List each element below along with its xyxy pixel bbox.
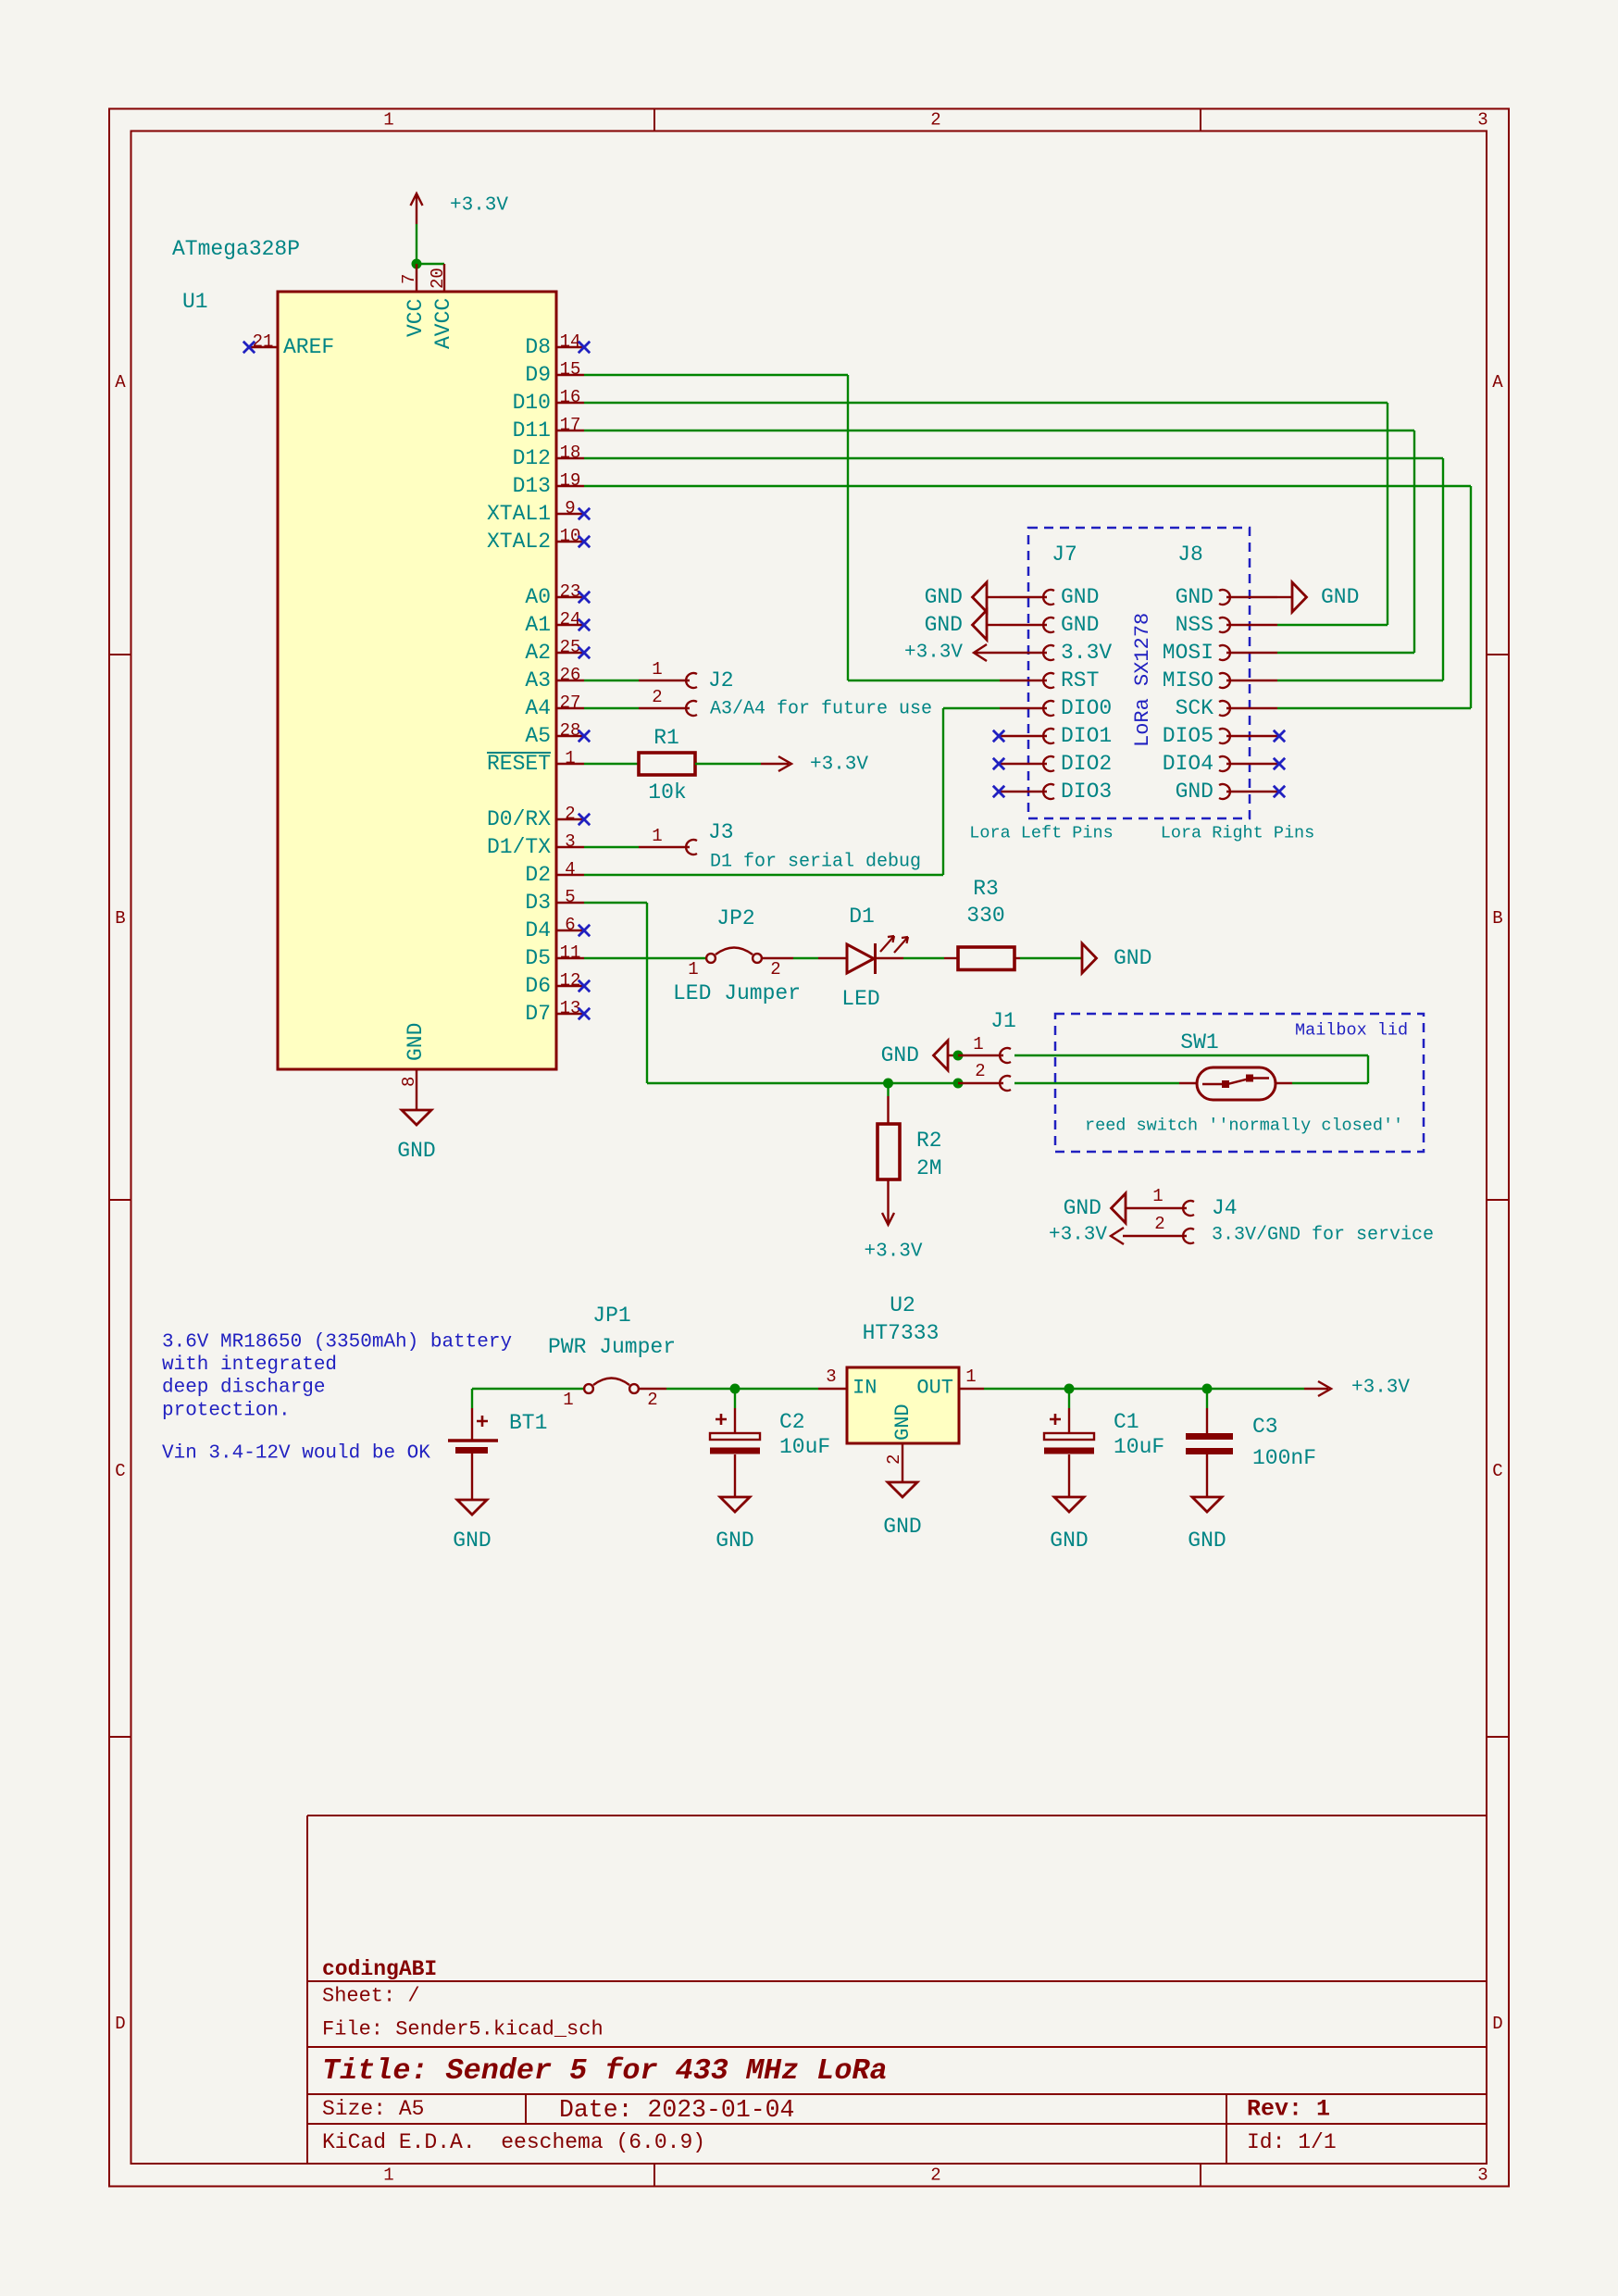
- connector J4 pin 2: [1123, 1235, 1187, 1237]
- ground below C3: [1192, 1497, 1222, 1512]
- ground at J7 GND pin row1: [973, 582, 988, 612]
- junction J1 pin2: [953, 1079, 964, 1089]
- jumper JP1 PWR Jumper: [584, 1384, 593, 1393]
- svg-text:RESET: RESET: [487, 752, 551, 776]
- power +3.3V right of R1: [761, 763, 789, 765]
- svg-text:MOSI: MOSI: [1163, 641, 1213, 665]
- pin 25 A2: [556, 652, 584, 654]
- svg-text:OUT: OUT: [916, 1377, 953, 1400]
- svg-text:18: 18: [560, 443, 581, 463]
- junction C3: [1202, 1384, 1213, 1394]
- svg-text:GND: GND: [397, 1139, 435, 1163]
- svg-text:3.6V MR18650 (3350mAh) battery: 3.6V MR18650 (3350mAh) battery: [162, 1332, 512, 1354]
- svg-text:deep discharge: deep discharge: [162, 1378, 325, 1399]
- no-connect J8: [1274, 786, 1285, 797]
- svg-text:1: 1: [565, 748, 575, 768]
- svg-text:SW1: SW1: [1180, 1030, 1218, 1054]
- ground below C1: [1054, 1497, 1084, 1512]
- svg-text:J8: J8: [1177, 543, 1203, 567]
- svg-text:U2: U2: [890, 1293, 915, 1317]
- pin 2 D0/RX: [556, 818, 584, 820]
- svg-text:D1/TX: D1/TX: [487, 835, 551, 859]
- no-connect J7: [993, 758, 1004, 769]
- svg-text:J3: J3: [708, 820, 734, 844]
- svg-text:JP1: JP1: [592, 1304, 630, 1328]
- no-connect A0: [579, 592, 590, 603]
- connector J7 pin DIO1: [1000, 735, 1047, 737]
- pin 10 XTAL2: [556, 541, 584, 543]
- connector J8 pin GND: [1219, 590, 1230, 605]
- no-connect AREF: [243, 342, 255, 353]
- connector J8 pin DIO5: [1219, 729, 1230, 743]
- pin 2 GND: [902, 1443, 903, 1482]
- svg-text:DIO2: DIO2: [1061, 752, 1112, 776]
- ground right of R3: [1082, 943, 1097, 973]
- svg-text:D12: D12: [513, 446, 551, 470]
- svg-text:+3.3V: +3.3V: [810, 755, 868, 776]
- svg-text:GND: GND: [716, 1529, 753, 1553]
- junction J1 pin1: [953, 1051, 964, 1061]
- pin 28 A5: [556, 735, 584, 737]
- jumper JP2 LED Jumper: [584, 957, 706, 959]
- no-connect XTAL1: [579, 508, 590, 519]
- svg-text:R1: R1: [653, 726, 679, 750]
- svg-text:21: 21: [253, 331, 274, 352]
- svg-text:DIO4: DIO4: [1163, 752, 1213, 776]
- svg-text:+3.3V: +3.3V: [1049, 1225, 1107, 1246]
- svg-text:C: C: [1492, 1461, 1502, 1481]
- connector J8 pin SCK: [1219, 701, 1230, 716]
- svg-text:D6: D6: [525, 974, 551, 998]
- ground symbol below U1: [402, 1110, 431, 1125]
- svg-text:D: D: [1492, 2014, 1502, 2034]
- svg-text:KiCad E.D.A. eeschema (6.0.9): KiCad E.D.A. eeschema (6.0.9): [322, 2130, 705, 2154]
- wire D12 to MISO: [584, 457, 1443, 459]
- ground below BT1: [457, 1500, 487, 1515]
- junction VCC node: [412, 259, 422, 269]
- svg-text:Vin 3.4-12V would be OK: Vin 3.4-12V would be OK: [162, 1443, 430, 1465]
- connector J8 pin MISO: [1219, 673, 1230, 688]
- svg-text:DIO1: DIO1: [1061, 724, 1112, 748]
- power +3.3V at U1 top: [416, 195, 417, 224]
- svg-text:D9: D9: [525, 363, 551, 387]
- svg-text:3: 3: [1477, 2165, 1487, 2186]
- svg-text:PWR Jumper: PWR Jumper: [548, 1335, 676, 1359]
- svg-text:JP2: JP2: [716, 906, 754, 930]
- wire D1 to R3: [903, 957, 944, 959]
- ground at J8 GND pin: [1277, 596, 1292, 598]
- no-connect J8: [1274, 730, 1285, 742]
- pin 5 D3: [556, 902, 584, 904]
- pin 3 D1/TX: [556, 846, 584, 848]
- svg-text:B: B: [1492, 908, 1502, 929]
- svg-text:GND: GND: [1061, 613, 1099, 637]
- svg-text:14: 14: [560, 331, 581, 352]
- svg-text:D10: D10: [513, 391, 551, 415]
- connector J8 pin GND: [1219, 784, 1230, 799]
- pin 9 XTAL1: [556, 513, 584, 515]
- svg-text:15: 15: [560, 359, 581, 380]
- svg-text:3: 3: [826, 1366, 836, 1387]
- no-connect XTAL2: [579, 536, 590, 547]
- svg-text:+3.3V: +3.3V: [1351, 1378, 1410, 1399]
- junction R2 branch: [883, 1079, 893, 1089]
- pin 24 A1: [556, 624, 584, 626]
- connector J7 pin DIO2: [1000, 763, 1047, 765]
- svg-text:25: 25: [560, 637, 581, 657]
- svg-text:Lora Left Pins: Lora Left Pins: [969, 824, 1113, 843]
- wire D13 to SCK: [584, 485, 1471, 487]
- svg-text:1: 1: [1152, 1186, 1163, 1206]
- pin 13 D7: [556, 1013, 584, 1015]
- svg-text:A0: A0: [525, 585, 551, 609]
- microcontroller U1 ATmega328P body: [278, 292, 556, 1069]
- svg-text:10: 10: [560, 526, 581, 546]
- svg-text:GND: GND: [1176, 780, 1213, 804]
- junction C2: [730, 1384, 741, 1394]
- svg-text:10uF: 10uF: [779, 1435, 830, 1459]
- svg-text:D0/RX: D0/RX: [487, 807, 551, 831]
- svg-text:XTAL2: XTAL2: [487, 530, 551, 554]
- connector J8 pin NSS: [1219, 618, 1230, 632]
- svg-text:DIO0: DIO0: [1061, 696, 1112, 720]
- pin 26 A3: [556, 680, 584, 681]
- pin 6 D4: [556, 930, 584, 931]
- pin 3 IN: [818, 1388, 847, 1390]
- svg-text:D8: D8: [525, 335, 551, 359]
- svg-text:2: 2: [770, 959, 780, 980]
- svg-text:C2: C2: [779, 1410, 805, 1434]
- pin 20 AVCC: [443, 264, 445, 292]
- svg-text:Size: A5: Size: A5: [322, 2097, 424, 2121]
- wire R3 to GND: [1020, 957, 1082, 959]
- svg-text:A3: A3: [525, 668, 551, 693]
- svg-text:13: 13: [560, 998, 581, 1018]
- svg-text:8: 8: [399, 1077, 419, 1087]
- wire D10 to NSS: [584, 402, 1388, 404]
- ground at J7 GND pin row2: [973, 610, 988, 640]
- no-connect A2: [579, 647, 590, 658]
- svg-text:ATmega328P: ATmega328P: [172, 237, 300, 261]
- svg-text:GND: GND: [1064, 1196, 1101, 1220]
- svg-text:A2: A2: [525, 641, 551, 665]
- svg-text:D1: D1: [849, 905, 875, 929]
- ground at J1 pin1: [934, 1041, 949, 1070]
- svg-text:A: A: [115, 372, 126, 393]
- svg-text:3: 3: [1477, 110, 1487, 131]
- sheet border frame: [109, 109, 1509, 2187]
- pin 15 D9: [556, 374, 584, 376]
- svg-text:4: 4: [565, 859, 575, 880]
- pin 21 AREF: [249, 346, 278, 348]
- svg-text:LoRa SX1278: LoRa SX1278: [1131, 613, 1154, 747]
- svg-text:File: Sender5.kicad_sch: File: Sender5.kicad_sch: [322, 2018, 604, 2041]
- svg-text:codingABI: codingABI: [322, 1957, 437, 1981]
- svg-text:protection.: protection.: [162, 1400, 291, 1421]
- svg-text:GND: GND: [891, 1404, 915, 1441]
- connector J7 pin RST: [1000, 680, 1047, 681]
- svg-text:2: 2: [565, 804, 575, 824]
- svg-text:+3.3V: +3.3V: [864, 1242, 922, 1263]
- capacitor C3 100nF: [1206, 1389, 1208, 1408]
- svg-text:XTAL1: XTAL1: [487, 502, 551, 526]
- svg-text:GND: GND: [1321, 585, 1359, 609]
- power +3.3V at J4 pin2: [1111, 1228, 1124, 1244]
- svg-text:2: 2: [930, 2165, 940, 2186]
- dashed box Mailbox lid: [1055, 1014, 1424, 1152]
- svg-text:100nF: 100nF: [1252, 1446, 1316, 1470]
- svg-text:DIO3: DIO3: [1061, 780, 1112, 804]
- connector J7 pin GND: [1000, 596, 1047, 598]
- connector J8 pin MOSI: [1219, 645, 1230, 660]
- svg-text:D7: D7: [525, 1002, 551, 1026]
- wire +3.3V to VCC/AVCC: [416, 224, 417, 264]
- svg-text:BT1: BT1: [509, 1411, 547, 1435]
- svg-text:10uF: 10uF: [1114, 1435, 1164, 1459]
- svg-text:Title: Sender 5 for 433 MHz Lo: Title: Sender 5 for 433 MHz LoRa: [322, 2054, 888, 2088]
- svg-text:GND: GND: [881, 1043, 919, 1067]
- svg-text:GND: GND: [453, 1529, 491, 1553]
- pin 27 A4: [556, 707, 584, 709]
- wire D9 to RST: [584, 374, 848, 376]
- svg-text:9: 9: [565, 498, 575, 518]
- reed switch SW1: [1179, 1082, 1197, 1084]
- svg-text:LED Jumper: LED Jumper: [673, 981, 801, 1005]
- connector J3 pin 1 (D1/TX): [584, 846, 639, 848]
- svg-text:6: 6: [565, 915, 575, 935]
- no-connect J8: [1274, 758, 1285, 769]
- connector J7 pin DIO3: [1000, 791, 1047, 792]
- pin 19 D13: [556, 485, 584, 487]
- svg-text:2M: 2M: [916, 1156, 942, 1180]
- no-connect D8: [579, 342, 590, 353]
- pin 14 D8: [556, 346, 584, 348]
- svg-text:HT7333: HT7333: [863, 1321, 940, 1345]
- svg-text:D5: D5: [525, 946, 551, 970]
- pin 11 D5: [556, 957, 584, 959]
- svg-text:A5: A5: [525, 724, 551, 748]
- no-connect D7: [579, 1008, 590, 1019]
- svg-text:19: 19: [560, 470, 581, 491]
- svg-text:1: 1: [688, 959, 698, 980]
- svg-text:A4: A4: [525, 696, 551, 720]
- resistor R2 2M: [887, 1083, 889, 1096]
- no-connect A5: [579, 730, 590, 742]
- svg-text:A: A: [1492, 372, 1503, 393]
- voltage regulator U2 HT7333: [847, 1367, 959, 1443]
- svg-text:1: 1: [652, 659, 662, 680]
- svg-text:12: 12: [560, 970, 581, 991]
- svg-text:C3: C3: [1252, 1415, 1278, 1439]
- svg-text:DIO5: DIO5: [1163, 724, 1213, 748]
- wire JP1 to U2 IN: [666, 1388, 818, 1390]
- wire D2 to DIO0: [584, 874, 943, 876]
- pin 1 RESET: [556, 763, 584, 765]
- dashed box LoRa SX1278: [1028, 528, 1250, 818]
- svg-text:24: 24: [560, 609, 581, 630]
- wire R1 to +3.3V: [695, 763, 761, 765]
- connector J2 pin 1 (A3): [584, 680, 639, 681]
- no-connect D4: [579, 925, 590, 936]
- svg-text:J1: J1: [990, 1009, 1016, 1033]
- no-connect A1: [579, 619, 590, 630]
- svg-text:AREF: AREF: [283, 335, 334, 359]
- no-connect D6: [579, 980, 590, 992]
- svg-text:5: 5: [565, 887, 575, 907]
- connector J8 pin DIO4: [1219, 756, 1230, 771]
- svg-text:1: 1: [652, 826, 662, 846]
- ground below C2: [720, 1497, 750, 1512]
- svg-text:with integrated: with integrated: [162, 1354, 337, 1376]
- svg-text:B: B: [115, 908, 125, 929]
- svg-text:GND: GND: [1061, 585, 1099, 609]
- svg-text:RST: RST: [1061, 668, 1099, 693]
- svg-text:Rev: 1: Rev: 1: [1247, 2096, 1330, 2123]
- svg-text:2: 2: [884, 1454, 904, 1465]
- svg-text:GND: GND: [1114, 946, 1151, 970]
- connector J4 pin 1: [1126, 1207, 1187, 1209]
- pin 8 GND at U1 bottom: [416, 1069, 417, 1110]
- svg-text:1: 1: [965, 1366, 976, 1387]
- pin 12 D6: [556, 985, 584, 987]
- svg-text:D4: D4: [525, 918, 551, 942]
- svg-text:C: C: [115, 1461, 125, 1481]
- capacitor C2 10uF: [734, 1389, 736, 1408]
- connector J2 pin 2 (A4): [584, 707, 639, 709]
- ground below U2: [888, 1482, 917, 1497]
- title block: [306, 1816, 308, 2164]
- pin 7 VCC: [416, 264, 417, 292]
- svg-text:+3.3V: +3.3V: [450, 195, 508, 217]
- wire J1 pin2 to SW1 left: [1014, 1082, 1179, 1084]
- svg-text:R2: R2: [916, 1129, 942, 1153]
- svg-text:VCC: VCC: [404, 299, 428, 337]
- pin 16 D10: [556, 402, 584, 404]
- svg-text:LED: LED: [841, 987, 879, 1011]
- svg-text:D2: D2: [525, 863, 551, 887]
- svg-text:GND: GND: [1176, 585, 1213, 609]
- connector J7 pin 3.3V: [1000, 652, 1047, 654]
- connector J1 pin 2: [958, 1082, 1003, 1084]
- svg-text:1: 1: [383, 2165, 393, 2186]
- svg-text:3.3V/GND for service: 3.3V/GND for service: [1212, 1225, 1434, 1246]
- wire U2 OUT to +3.3V: [984, 1388, 1304, 1390]
- svg-text:SCK: SCK: [1176, 696, 1214, 720]
- connector J7 pin DIO0: [1000, 707, 1047, 709]
- wire JP2 to D1: [762, 957, 793, 959]
- svg-text:+3.3V: +3.3V: [904, 643, 963, 664]
- no-connect J7: [993, 730, 1004, 742]
- svg-text:1: 1: [383, 110, 393, 131]
- svg-text:J7: J7: [1052, 543, 1077, 567]
- svg-text:A1: A1: [525, 613, 551, 637]
- wire BT1 to JP1: [472, 1388, 584, 1390]
- svg-text:C1: C1: [1114, 1410, 1139, 1434]
- svg-text:D1 for serial debug: D1 for serial debug: [710, 852, 921, 873]
- svg-text:D: D: [115, 2014, 125, 2034]
- svg-text:GND: GND: [925, 613, 963, 637]
- svg-text:D3: D3: [525, 891, 551, 915]
- svg-text:23: 23: [560, 581, 581, 602]
- svg-text:2: 2: [975, 1061, 985, 1081]
- svg-text:1: 1: [973, 1034, 983, 1054]
- resistor R3 330: [944, 957, 958, 959]
- svg-text:330: 330: [966, 904, 1004, 928]
- svg-text:Sheet: /: Sheet: /: [322, 1985, 420, 2008]
- pin 18 D12: [556, 457, 584, 459]
- pin 1 OUT: [959, 1388, 984, 1390]
- svg-text:11: 11: [560, 942, 581, 963]
- power +3.3V at rail end: [1304, 1388, 1328, 1390]
- svg-text:J2: J2: [708, 668, 734, 693]
- svg-text:20: 20: [428, 268, 448, 289]
- svg-text:16: 16: [560, 387, 581, 407]
- svg-text:D13: D13: [513, 474, 551, 498]
- svg-text:2: 2: [652, 687, 662, 707]
- svg-text:R3: R3: [973, 877, 999, 901]
- svg-text:17: 17: [560, 415, 581, 435]
- no-connect J7: [993, 786, 1004, 797]
- LED D1: [818, 957, 847, 959]
- svg-text:IN: IN: [853, 1377, 877, 1400]
- svg-text:AVCC: AVCC: [431, 298, 455, 349]
- svg-text:3.3V: 3.3V: [1061, 641, 1112, 665]
- svg-text:Id: 1/1: Id: 1/1: [1247, 2130, 1337, 2154]
- svg-text:J4: J4: [1212, 1196, 1238, 1220]
- svg-text:26: 26: [560, 665, 581, 685]
- svg-text:reed switch ''normally closed': reed switch ''normally closed'': [1085, 1117, 1403, 1136]
- battery BT1: [471, 1389, 473, 1408]
- pin 17 D11: [556, 430, 584, 431]
- svg-text:NSS: NSS: [1176, 613, 1213, 637]
- svg-text:GND: GND: [1050, 1529, 1088, 1553]
- svg-text:D11: D11: [513, 418, 551, 443]
- resistor R1 10k: [584, 763, 639, 765]
- svg-text:28: 28: [560, 720, 581, 741]
- connector J1 pin 1: [958, 1054, 1003, 1056]
- power +3.3V below R2: [887, 1179, 889, 1223]
- svg-text:2: 2: [1154, 1214, 1164, 1234]
- svg-text:GND: GND: [883, 1515, 921, 1539]
- wire D3 to J1 pin2 and R2: [584, 902, 647, 904]
- wire J1 pin1 to SW1 right: [1014, 1054, 1368, 1056]
- ground at J4 pin1: [1112, 1193, 1126, 1223]
- svg-text:Lora Right Pins: Lora Right Pins: [1161, 824, 1315, 843]
- capacitor C1 10uF: [1068, 1389, 1070, 1408]
- svg-text:U1: U1: [182, 290, 208, 314]
- junction C1: [1064, 1384, 1075, 1394]
- svg-text:A3/A4 for future use: A3/A4 for future use: [710, 699, 932, 720]
- svg-text:3: 3: [565, 831, 575, 852]
- svg-text:1: 1: [563, 1390, 573, 1410]
- svg-text:GND: GND: [1188, 1529, 1226, 1553]
- pin 4 D2: [556, 874, 584, 876]
- power +3.3V at J7 3.3V pin: [974, 644, 987, 661]
- svg-text:2: 2: [647, 1390, 657, 1410]
- svg-text:MISO: MISO: [1163, 668, 1213, 693]
- wire D11 to MOSI: [584, 430, 1414, 431]
- svg-text:27: 27: [560, 693, 581, 713]
- svg-text:Date: 2023-01-04: Date: 2023-01-04: [559, 2096, 794, 2124]
- pin 23 A0: [556, 596, 584, 598]
- svg-text:GND: GND: [404, 1023, 428, 1061]
- no-connect D0/RX: [579, 814, 590, 825]
- svg-text:Mailbox lid: Mailbox lid: [1295, 1021, 1408, 1041]
- svg-text:GND: GND: [925, 585, 963, 609]
- connector J7 pin GND: [1000, 624, 1047, 626]
- svg-text:7: 7: [399, 274, 419, 284]
- svg-text:10k: 10k: [648, 780, 686, 805]
